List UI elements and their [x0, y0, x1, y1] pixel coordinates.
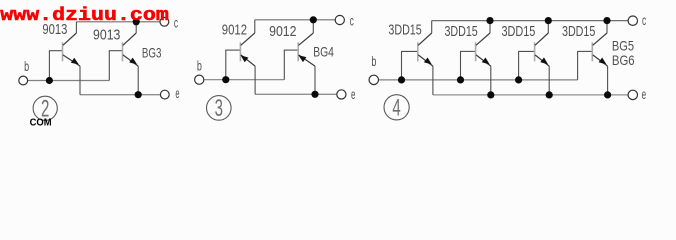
svg-text:b: b: [371, 54, 376, 69]
svg-text:3DD15: 3DD15: [562, 24, 595, 40]
svg-text:b: b: [197, 59, 202, 74]
svg-text:3: 3: [215, 95, 223, 121]
svg-text:COM: COM: [30, 116, 52, 128]
svg-text:4: 4: [392, 95, 400, 121]
svg-text:9012: 9012: [222, 22, 247, 38]
svg-text:9012: 9012: [269, 24, 296, 40]
svg-text:e: e: [175, 86, 179, 101]
svg-text:3DD15: 3DD15: [502, 24, 536, 40]
svg-text:3DD15: 3DD15: [445, 24, 478, 40]
svg-text:3DD15: 3DD15: [388, 22, 421, 38]
svg-text:BG5: BG5: [612, 39, 634, 54]
svg-text:BG3: BG3: [142, 45, 162, 60]
svg-text:b: b: [24, 59, 29, 74]
svg-text:BG6: BG6: [612, 53, 635, 68]
svg-text:www.dziuu.com: www.dziuu.com: [0, 6, 169, 26]
svg-text:c: c: [642, 13, 646, 28]
svg-text:e: e: [351, 87, 356, 102]
svg-text:c: c: [174, 15, 178, 30]
svg-text:9013: 9013: [93, 27, 120, 43]
svg-text:e: e: [642, 87, 647, 102]
svg-text:BG4: BG4: [313, 44, 334, 59]
svg-text:c: c: [350, 13, 354, 28]
